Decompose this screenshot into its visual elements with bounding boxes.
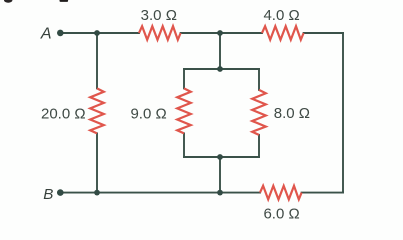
junction dot box bottom (217, 154, 223, 160)
svg-text:4.0 Ω: 4.0 Ω (263, 7, 299, 24)
junction dot top-middle (217, 30, 223, 36)
wire: left vertical lower stub (96, 133, 98, 192)
resistor R4 9.0 ohm zigzag (177, 88, 191, 133)
svg-text:3.0 Ω: 3.0 Ω (141, 7, 177, 24)
wire: box right upper stub (258, 69, 260, 90)
wire: middle stub top (219, 33, 221, 69)
junction dot box top (217, 66, 223, 72)
svg-text:6.0 Ω: 6.0 Ω (263, 206, 299, 223)
node A terminal dot (57, 30, 64, 37)
wire: top A to 3.0 ohm (63, 32, 139, 34)
wire: parallel box bottom (184, 156, 259, 158)
wire: box left lower stub (183, 133, 185, 157)
resistor R5 8.0 ohm zigzag (252, 90, 266, 135)
svg-text:20.0 Ω: 20.0 Ω (41, 106, 86, 123)
junction dot top-left (94, 30, 100, 36)
wire: parallel box top (184, 68, 259, 70)
resistor R3 20.0 ohm zigzag (90, 88, 104, 133)
wire: top right of 4.0 ohm (304, 32, 343, 34)
cropped caption glyph remnant 1 (4, 0, 12, 3)
resistor R2 4.0 ohm zigzag (262, 26, 304, 40)
resistor R1 3.0 ohm zigzag (139, 26, 181, 40)
resistor R6 6.0 ohm zigzag (260, 186, 302, 200)
wire: top between 3.0 and 4.0 ohm (181, 32, 262, 34)
wire: box left upper stub (183, 69, 185, 88)
wire: right vertical (342, 33, 344, 193)
node B terminal dot (57, 189, 64, 196)
junction dot bottom-left (94, 190, 100, 196)
wire: middle stub bottom (219, 157, 221, 193)
svg-text:A: A (40, 25, 52, 42)
cropped caption glyph remnant 2 (60, 0, 69, 2)
svg-text:B: B (43, 186, 53, 203)
svg-text:8.0 Ω: 8.0 Ω (274, 105, 310, 122)
wire: bottom B to 6.0 ohm (63, 192, 260, 194)
junction dot bottom-middle (217, 190, 223, 196)
svg-text:9.0 Ω: 9.0 Ω (130, 106, 166, 123)
wire: left vertical upper stub (96, 33, 98, 88)
wire: bottom right of 6.0 ohm (302, 192, 343, 194)
wire: box right lower stub (258, 135, 260, 157)
